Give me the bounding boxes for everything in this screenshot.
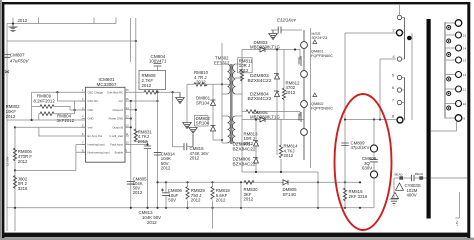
wire RM831 to CM814 [136, 141, 148, 144]
transformer TM801 secondary stubs [445, 23, 455, 118]
transistor QM802 [299, 93, 333, 135]
svg-text:OSC: OSC [88, 108, 94, 112]
resistor J802 [13, 176, 28, 191]
svg-text:2012: 2012 [196, 80, 206, 85]
svg-text:SR104: SR104 [196, 121, 210, 126]
svg-text:2012: 2012 [191, 198, 201, 203]
ground at one-shot [176, 92, 184, 103]
node gnd wire [31, 119, 33, 121]
diode DM803 [242, 40, 300, 52]
ferrite bead 2 [415, 172, 424, 180]
resistor RM811 [238, 58, 253, 81]
svg-text:2012: 2012 [18, 18, 28, 23]
svg-text:BZX84C22: BZX84C22 [233, 162, 256, 167]
svg-text:BZX84C22: BZX84C22 [248, 78, 272, 84]
wire CY ground drop [393, 178, 395, 199]
svg-text:5: 5 [392, 74, 394, 78]
capacitor CM808 with terminals [362, 120, 378, 208]
svg-text:7: 7 [392, 99, 394, 103]
wire long vertical x157 [157, 92, 159, 208]
diode DM801 [196, 84, 216, 140]
node pin8 x380 [379, 118, 381, 120]
wire x241 link [240, 182, 242, 208]
wire Vref pin5 [15, 126, 86, 128]
capacitor CM804 [149, 54, 167, 71]
node pin16 [156, 91, 158, 93]
capacitor snubber top [271, 17, 302, 33]
node Vcc b [156, 100, 158, 102]
transformer TM801 core [427, 19, 431, 219]
ground at CM815 [189, 128, 197, 147]
wire x345 vertical [344, 33, 346, 208]
node zener top [276, 48, 278, 50]
svg-text:14: 14 [126, 106, 129, 110]
wire pin16 one-shot [129, 91, 180, 93]
wire RM810 row [187, 83, 232, 85]
svg-text:Inverting Input: Inverting Input [88, 143, 105, 147]
node mid bus x345 [344, 181, 346, 183]
svg-text:Vref: Vref [88, 126, 93, 130]
svg-text:Output B: Output B [112, 126, 123, 130]
svg-text:Output A: Output A [113, 108, 124, 112]
svg-text:BEAD: BEAD [395, 172, 404, 176]
wire bead row left [394, 177, 427, 179]
svg-text:13: 13 [463, 59, 467, 63]
svg-text:OSC RC: OSC RC [88, 99, 99, 103]
node OutputA [135, 109, 137, 111]
node x222 top [221, 83, 223, 85]
svg-text:GND: GND [88, 117, 94, 121]
transformer TM801 secondary pins [455, 20, 466, 122]
wire vertical feed x130 [129, 18, 131, 62]
svg-text:100V471: 100V471 [149, 59, 167, 64]
transformer TM802 [214, 43, 242, 144]
svg-text:4: 4 [393, 55, 395, 59]
wire osc vertical [74, 101, 76, 114]
svg-text:15: 15 [126, 97, 129, 101]
ground CY [390, 199, 399, 206]
wire H2 [7, 40, 136, 42]
node Vcc a [130, 100, 132, 102]
resistor RM806 [13, 148, 32, 164]
node mid bus x241 [240, 181, 242, 183]
svg-text:2: 2 [393, 29, 395, 33]
svg-text:Vcc: Vcc [119, 99, 124, 103]
wire y172 [242, 172, 318, 208]
wire primary winding links [402, 18, 412, 121]
resistor RM813 [242, 110, 300, 146]
resistor RM829 [186, 182, 205, 208]
capacitor CM806 [161, 182, 182, 208]
svg-text:2KF 3216: 2KF 3216 [349, 194, 368, 199]
svg-text:12 50V: 12 50V [6, 156, 10, 166]
wire secondary winding bar [444, 22, 446, 119]
wire GND pin4 [7, 119, 86, 121]
node secondary polarity dots [446, 25, 451, 111]
safety warning triangles [392, 183, 404, 199]
node top rail junction [12, 22, 14, 24]
svg-text:CM807: CM807 [10, 53, 25, 58]
resistor RM812 [282, 50, 300, 120]
svg-text:MC33067: MC33067 [97, 82, 117, 87]
svg-text:H/SS: H/SS [312, 32, 321, 36]
svg-text:2012: 2012 [286, 90, 296, 95]
node H2 [135, 40, 137, 42]
svg-text:2012: 2012 [6, 114, 16, 119]
resistor RM808 [139, 71, 166, 94]
svg-text:QM802: QM802 [311, 102, 323, 106]
svg-text:47pJ/1KV: 47pJ/1KV [351, 145, 370, 150]
node pin16 b [172, 91, 174, 93]
svg-text:2012: 2012 [239, 68, 249, 73]
node pin10 [146, 143, 148, 145]
svg-text:12: 12 [463, 73, 467, 77]
op-amp controller ICM801 MC33067 [82, 77, 130, 162]
svg-text:FQPF5N60C: FQPF5N60C [311, 107, 333, 111]
wire vertical x130 lower [130, 101, 132, 208]
svg-text:Err Amp Out: Err Amp Out [88, 134, 103, 138]
svg-text:E32/1Kev: E32/1Kev [277, 17, 297, 22]
node rail B mid [14, 169, 16, 171]
wire PowerGND pin13 [129, 118, 131, 120]
wire pin1 OSC Charge [32, 91, 86, 93]
diode DM805 [283, 180, 298, 197]
node y172 dzm [255, 171, 257, 173]
svg-text:14: 14 [463, 47, 467, 51]
capacitor CM807 [4, 53, 30, 74]
svg-text:2012: 2012 [142, 83, 152, 88]
wire x242 vertical [241, 50, 243, 173]
svg-text:10: 10 [126, 141, 129, 145]
svg-text:30*24*23: 30*24*23 [312, 36, 328, 40]
svg-text:Fault Input: Fault Input [110, 143, 123, 147]
node pin3 [74, 109, 76, 111]
wire pin6 link [39, 127, 86, 136]
svg-text:+5V: +5V [455, 221, 459, 226]
diode DM806 [242, 110, 304, 122]
node pin1 wire [56, 91, 58, 93]
wire pin1 stub [399, 5, 401, 15]
resistor RM804 [39, 112, 75, 123]
svg-text:11: 11 [463, 88, 466, 92]
wire FaultInput pin10 [129, 144, 148, 146]
svg-text:13: 13 [126, 115, 129, 119]
wire bottom bus [7, 207, 374, 209]
node PowerGND [130, 117, 132, 119]
node primary polarity dot [407, 36, 412, 41]
svg-text:FQPF5N60C: FQPF5N60C [311, 54, 333, 58]
wire Vcc pin15 [129, 100, 158, 102]
wire pin4 feed [380, 59, 396, 120]
node OutputB [130, 126, 132, 128]
ferrite bead 1 [395, 172, 404, 179]
wire noninverting long [15, 169, 76, 171]
wire DM80x to transformer [213, 139, 222, 141]
node mid bus x166 [165, 181, 167, 183]
resistor RM815 [343, 188, 368, 201]
svg-text:BZX84C22: BZX84C22 [233, 147, 256, 152]
svg-text:400V: 400V [407, 193, 417, 198]
heatsink H/SS label [311, 28, 328, 168]
ground x187 [183, 123, 191, 129]
resistor RM818 [211, 182, 230, 228]
zener DZM805 [233, 118, 259, 172]
ground chassis arrow [8, 24, 19, 32]
svg-text:BZX84C22: BZX84C22 [248, 96, 272, 102]
wire vertical feed x135 [135, 18, 137, 141]
svg-text:2012: 2012 [147, 220, 157, 225]
svg-text:630V: 630V [362, 166, 372, 171]
node +5V bracket [455, 192, 460, 226]
wire QM802 gate [300, 112, 301, 117]
resistor RM830 [244, 181, 259, 202]
svg-text:3KF2012: 3KF2012 [57, 118, 75, 123]
zener DZM803 [248, 50, 280, 156]
wire QM801 gate [300, 50, 301, 60]
resistor RM810 [194, 70, 209, 86]
resistor RM831 [134, 129, 152, 144]
transistor QM801 [299, 40, 333, 77]
wire pin7 pin8 vertical [76, 145, 86, 171]
node gate row [294, 48, 296, 50]
svg-text:11: 11 [126, 132, 129, 136]
zener DZM804 [248, 91, 280, 102]
node rail B top [14, 126, 16, 128]
node x222 [221, 139, 223, 141]
svg-text:One-Shot RC: One-Shot RC [107, 90, 123, 94]
svg-text:Enable: Enable [115, 151, 124, 155]
svg-text:BEAD: BEAD [415, 172, 424, 176]
svg-text:50V: 50V [168, 198, 176, 203]
svg-text:NonInverting Input: NonInverting Input [88, 151, 110, 155]
ground snubber [269, 30, 277, 40]
capacitor pin10 [144, 146, 151, 208]
capacitor CM805 [127, 177, 147, 196]
node mid bus x212 [211, 181, 213, 183]
svg-text:2012: 2012 [133, 190, 143, 195]
svg-text:2012: 2012 [18, 159, 28, 164]
wire pin16 branch down [173, 92, 184, 147]
svg-text:SR104: SR104 [196, 100, 210, 105]
svg-text:2012: 2012 [161, 166, 171, 171]
resistor RM802 label [6, 104, 21, 119]
node y172 rm814 [280, 171, 282, 173]
node mid bus x187 [186, 181, 188, 183]
svg-text:MBD2838LT1G: MBD2838LT1G [250, 114, 280, 119]
wire x187 vertical [186, 84, 188, 122]
node pin8 x374 [373, 118, 375, 120]
svg-text:QM801: QM801 [311, 49, 323, 53]
svg-text:C soft_start: C soft_start [109, 134, 123, 138]
svg-text:8: 8 [392, 115, 394, 119]
node pin8 x345 [344, 118, 346, 120]
transformer TM801 primary pins [392, 15, 403, 123]
zener DZM806 [233, 157, 259, 167]
node mid bus x157 [156, 181, 158, 183]
red highlight ellipse [335, 94, 392, 230]
wire mid horizontal bus [158, 181, 361, 183]
svg-text:8.2KF2012: 8.2KF2012 [34, 99, 56, 104]
wire mosfet rail [303, 30, 305, 160]
capacitor CM814 [154, 151, 176, 170]
capacitor CM813 label [139, 210, 162, 225]
wire left rail A [6, 24, 8, 232]
node secondary polarity dot rings [448, 26, 450, 109]
svg-text:2012: 2012 [244, 197, 254, 202]
diode DM802 [195, 116, 216, 132]
wire secondary output [431, 177, 468, 179]
node mid bus x318 [317, 181, 319, 183]
svg-text:MBD2838LT1G: MBD2838LT1G [250, 44, 280, 49]
wire left rail B [14, 127, 16, 231]
capacitor CY803S [405, 175, 421, 198]
svg-text:15: 15 [463, 34, 467, 38]
svg-text:2012: 2012 [216, 198, 226, 203]
capacitor CM809 [341, 140, 369, 150]
wire OutputB pin12 [129, 126, 131, 128]
wire pin8 feed [345, 119, 397, 121]
svg-text:47uF50V: 47uF50V [10, 59, 30, 64]
wire Enable pin9 [129, 151, 131, 153]
node mid bus x360 [359, 181, 361, 183]
svg-text:3216: 3216 [18, 186, 28, 191]
svg-text:16: 16 [126, 88, 129, 92]
svg-text:6: 6 [392, 86, 394, 90]
svg-text:10: 10 [463, 102, 467, 106]
wire pin9 return [431, 121, 457, 131]
wire OutputA pin14 [129, 109, 136, 111]
wire top rail [7, 18, 116, 24]
node bottom bus dots [14, 207, 361, 209]
resistor RM814 [279, 120, 298, 173]
svg-text:Power GND: Power GND [109, 117, 123, 121]
svg-text:OSC Charge: OSC Charge [88, 90, 104, 94]
wire left vertical x31 [31, 92, 33, 120]
wire pin2 feed [345, 32, 396, 34]
wire pin2 link [57, 92, 85, 101]
svg-text:SF14G: SF14G [283, 192, 297, 197]
resistor RM809 [32, 94, 86, 111]
svg-text:2012: 2012 [284, 153, 294, 158]
svg-text:12: 12 [126, 123, 129, 127]
capacitor CM815 [184, 143, 209, 160]
svg-text:2012: 2012 [190, 156, 200, 161]
